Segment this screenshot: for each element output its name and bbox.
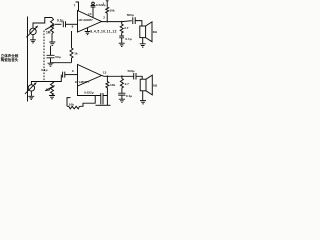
capacitor C2 500u (top output) — [127, 13, 136, 24]
wire L corner — [67, 98, 71, 107]
wire wiper2 up to C5 — [52, 75, 61, 82]
pickup P1 (top crystal pickup) — [26, 26, 38, 38]
svg-text:10k: 10k — [69, 102, 74, 106]
svg-text:9: 9 — [72, 69, 74, 73]
svg-text:10k: 10k — [110, 83, 115, 87]
ground (bottom zobel) — [119, 99, 125, 102]
wire pickup P2 top — [31, 82, 52, 85]
ground (pickup P2) — [28, 96, 34, 99]
potentiometer RP1 1M (top volume) — [45, 18, 55, 34]
svg-text:50μ: 50μ — [55, 55, 60, 59]
pin 14 wire — [88, 7, 93, 18]
ground (bypass) — [48, 63, 54, 67]
resistor R2 2.7 (top zobel) — [120, 22, 129, 36]
wire pickup P1 top to pot — [33, 18, 52, 29]
wire to ground — [121, 95, 123, 99]
op-amp U1a 1/2 LM1877 — [78, 11, 102, 33]
node (bottom output junction) — [107, 75, 109, 77]
wire C1 to op-amp — [66, 23, 78, 25]
potentiometer RP2 1M (bottom volume) — [45, 82, 55, 95]
ground (pickup P1) — [30, 40, 36, 43]
wire pickup P1 bottom — [32, 35, 34, 40]
svg-text:0.1μ: 0.1μ — [57, 19, 63, 23]
ground (top pot) — [49, 42, 55, 45]
ground pins wire — [87, 28, 89, 32]
svg-text:8Ω: 8Ω — [153, 84, 158, 88]
wire pot2 to ground — [51, 94, 53, 97]
svg-text:8: 8 — [72, 25, 74, 29]
resistor R1 10k (top feedback) — [102, 0, 114, 21]
label ground pins — [90, 29, 117, 33]
resistor R5 (bottom network) — [67, 102, 80, 109]
svg-text:14: 14 — [88, 12, 92, 16]
svg-text:1k: 1k — [74, 52, 78, 56]
output wire (top) — [102, 20, 132, 23]
op-amp U1b 1/2 LM1877 — [75, 65, 102, 87]
svg-text:0.1μ: 0.1μ — [125, 37, 131, 41]
svg-text:0.1μ: 0.1μ — [126, 94, 132, 98]
svg-text:1M: 1M — [46, 30, 51, 34]
wire wiper to C1 — [55, 23, 61, 25]
capacitor C3 0.1u (top zobel) — [119, 36, 131, 41]
resistor R4 10k (bottom feedback) — [106, 76, 116, 92]
svg-text:500μ: 500μ — [128, 69, 135, 73]
left input bus wire — [27, 17, 29, 102]
capacitor 0.022u (top) — [91, 5, 96, 7]
svg-text:3,4,5,10,11,12: 3,4,5,10,11,12 — [90, 29, 117, 33]
pin 7 stub — [74, 2, 79, 11]
ground (bottom speaker) — [140, 101, 146, 104]
svg-text:陶瓷拾音头: 陶瓷拾音头 — [1, 57, 19, 62]
capacitor C5 0.1u (bottom coupling) — [41, 68, 65, 77]
svg-text:2: 2 — [103, 16, 105, 20]
speaker LS2 — [140, 75, 158, 95]
wire to ground — [121, 38, 123, 43]
capacitor C9 0.1u (bottom zobel) — [118, 93, 132, 98]
wire pot to ground — [51, 34, 53, 43]
label 1M (top) — [46, 30, 51, 34]
svg-text:10k: 10k — [109, 8, 114, 12]
node (bottom zobel junction) — [121, 75, 123, 77]
capacitor C8 500u (bottom output) — [128, 69, 137, 80]
svg-text:0.022μ: 0.022μ — [84, 91, 94, 95]
pin 8 — [72, 25, 74, 29]
wire speaker2 to ground — [142, 91, 144, 101]
svg-text:0.022μ: 0.022μ — [96, 3, 106, 7]
node (top output junction) — [107, 21, 109, 23]
wire speaker to ground — [142, 38, 144, 44]
svg-text:0.1μ: 0.1μ — [41, 68, 47, 72]
svg-text:13: 13 — [103, 71, 107, 75]
svg-text:2.7: 2.7 — [125, 82, 130, 86]
wire bottom rail — [96, 96, 111, 106]
ground (IC pins) — [85, 32, 91, 35]
wire feedback return — [78, 86, 96, 96]
capacitor C4 50u (bypass) — [47, 46, 61, 63]
svg-text:1M: 1M — [46, 88, 51, 92]
pin 9 — [72, 69, 74, 73]
bias network: wire from amp area down — [71, 31, 73, 48]
capacitor C6 0.022u (bottom feedback) — [84, 91, 107, 105]
svg-text:1/2 LM1877: 1/2 LM1877 — [78, 18, 93, 22]
wire C2 to speaker — [135, 21, 142, 26]
wire branch down — [80, 96, 96, 107]
resistor R3 1k — [70, 48, 78, 63]
svg-text:7: 7 — [74, 3, 76, 7]
pickup P2 (bottom crystal pickup) — [25, 82, 37, 94]
output wire (bottom) — [102, 75, 134, 76]
wire pickup P2 bottom — [30, 91, 32, 96]
svg-text:1/2 LM1877: 1/2 LM1877 — [75, 80, 90, 84]
pin 13 output — [103, 71, 107, 75]
svg-text:2.7: 2.7 — [124, 26, 129, 30]
node (top zobel junction) — [121, 21, 123, 23]
svg-text:8Ω: 8Ω — [153, 30, 158, 34]
ground (top zobel) — [119, 43, 125, 46]
gang dashed link — [43, 31, 45, 83]
ground (bottom pot) — [49, 96, 55, 99]
wire C8 to speaker — [136, 76, 142, 79]
ground (top speaker) — [140, 44, 146, 47]
svg-text:1: 1 — [102, 1, 104, 5]
wire to bypass cap — [51, 62, 72, 64]
svg-text:500μ: 500μ — [127, 13, 134, 17]
pin 2 output — [103, 16, 105, 20]
label: input source caption — [1, 53, 19, 62]
wire C5 to op-amp — [65, 74, 78, 76]
resistor R6 2.7 (bottom zobel) — [120, 76, 129, 93]
speaker LS1 — [140, 22, 158, 42]
capacitor C1 0.1u (top coupling) — [63, 21, 65, 27]
supply terminal — [92, 2, 95, 5]
